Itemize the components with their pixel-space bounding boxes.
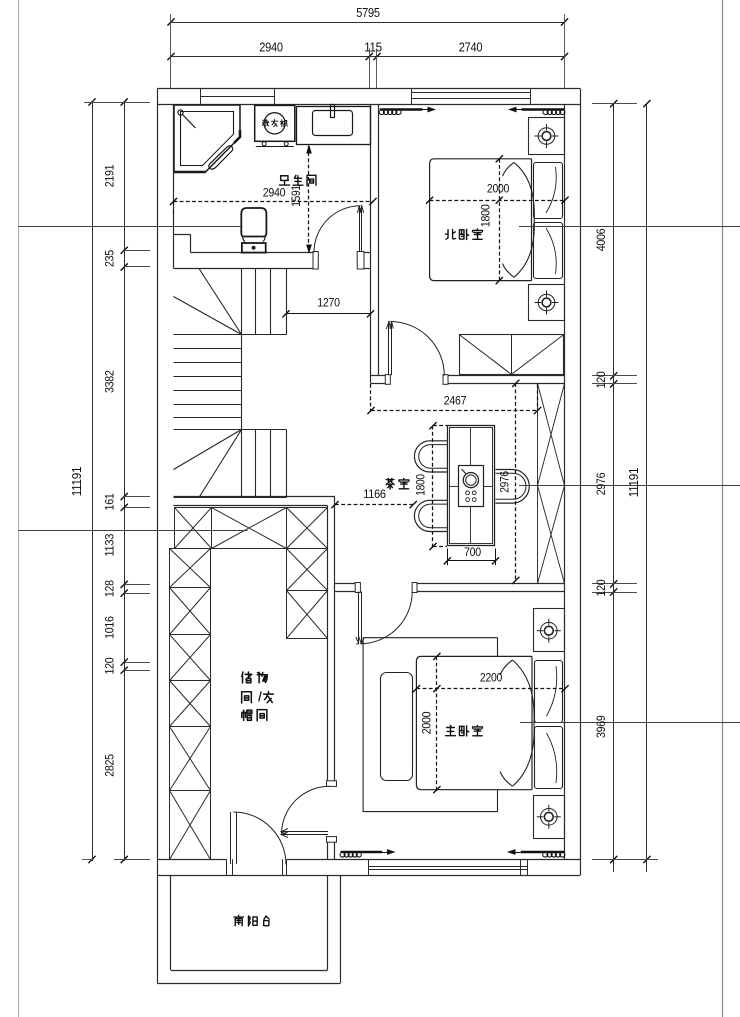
wall D storage north [174, 496, 336, 498]
svg-text:2740: 2740 [459, 41, 483, 55]
dim 700 table [447, 560, 495, 562]
dim 2200 bed [416, 688, 565, 690]
callout line left lower [19, 530, 248, 532]
dim 1800 tea room [432, 426, 434, 547]
wall F tea-room / master bedroom [335, 583, 355, 585]
svg-text:2000: 2000 [487, 182, 510, 196]
dim 2000 master bed [436, 656, 438, 789]
frame line left [18, 0, 20, 1017]
washing machine [255, 105, 295, 141]
svg-text:2940: 2940 [259, 41, 283, 55]
rug master bedroom [363, 638, 498, 812]
svg-text:235: 235 [103, 249, 117, 266]
svg-text:120: 120 [594, 579, 608, 596]
label 储物间/衣帽间 storage/cloak room [242, 672, 252, 683]
window W2 north bedroom [412, 92, 532, 94]
svg-text:1016: 1016 [103, 616, 117, 639]
label 卫生间 bathroom [279, 176, 289, 185]
sink vanity [297, 107, 371, 145]
svg-text:11191: 11191 [70, 466, 84, 496]
callout line right middle [519, 485, 740, 487]
door north bedroom [385, 375, 390, 385]
dim 2940 bathroom [174, 201, 374, 203]
bench master bedroom [381, 673, 413, 781]
shower door [209, 146, 233, 169]
dim chain right [613, 104, 615, 872]
blanket folds master bed [513, 660, 535, 786]
svg-text:2000: 2000 [420, 711, 434, 734]
bed north (1800) [430, 159, 532, 281]
window W3 sill cap detail [520, 859, 522, 875]
dim 1800 bed [499, 159, 501, 281]
svg-text:128: 128 [103, 580, 117, 597]
nightstand M2 [534, 796, 565, 839]
dim 1166 [335, 504, 413, 506]
svg-text:4006: 4006 [594, 228, 608, 251]
svg-text:120: 120 [594, 371, 608, 388]
wall exterior right [580, 89, 582, 876]
shower head [178, 110, 183, 115]
storage wardrobe right column [287, 549, 328, 591]
dim chain top [171, 22, 565, 24]
chair tea left top [414, 441, 447, 472]
svg-text:2191: 2191 [103, 164, 117, 187]
chair tea right [496, 470, 530, 504]
washing machine label 洗衣机 [262, 120, 269, 127]
window W1 bathroom north [201, 96, 276, 98]
svg-text:11191: 11191 [627, 467, 641, 497]
pillows master bed [535, 661, 563, 723]
svg-text:115: 115 [364, 41, 382, 55]
svg-text:700: 700 [464, 545, 481, 559]
wall exterior left [157, 89, 159, 876]
shower enclosure [174, 105, 240, 172]
pillows north bed [534, 163, 563, 219]
nightstand N1 [529, 118, 565, 155]
tall cabinet tea room [538, 384, 565, 486]
svg-text:3382: 3382 [103, 370, 117, 393]
svg-text:1166: 1166 [363, 487, 386, 501]
svg-text:1270: 1270 [317, 296, 340, 310]
svg-text:3969: 3969 [594, 715, 608, 738]
svg-text:2467: 2467 [444, 394, 467, 408]
svg-text:1800: 1800 [416, 474, 428, 496]
svg-text:5795: 5795 [356, 6, 380, 20]
door master bedroom [355, 583, 360, 593]
svg-text:1133: 1133 [103, 533, 117, 556]
staircase [174, 269, 287, 498]
dim 1270 hall [286, 313, 371, 315]
svg-text:2940: 2940 [263, 186, 286, 200]
wardrobe north bedroom [460, 335, 564, 375]
curtain north bedroom left [380, 108, 423, 110]
curtain north bedroom right [522, 108, 565, 110]
storage wardrobe top band [175, 508, 212, 549]
wall E storage right / master west [327, 506, 329, 787]
svg-text:2200: 2200 [480, 671, 503, 685]
label 北卧室 north bedroom [446, 229, 456, 239]
nightstand M1 [534, 609, 565, 652]
frame line right [722, 0, 724, 1017]
dim 2467 tea room [370, 384, 372, 411]
tea table [448, 426, 495, 546]
window W3 master bedroom south [369, 866, 528, 868]
wall A vertical bathroom/north-bedroom [370, 104, 372, 268]
label 茶室 tea room [386, 478, 394, 489]
callout line right lower [520, 722, 740, 724]
wall B north bedroom south [371, 375, 386, 377]
svg-text:1591: 1591 [291, 185, 303, 207]
storage wardrobe left column [170, 549, 211, 588]
svg-text:161: 161 [103, 493, 117, 510]
tea tray [459, 466, 484, 507]
nightstand N2 [529, 285, 565, 321]
wall C bathroom south [174, 234, 191, 236]
dim 2976 vertical dashed [515, 383, 517, 580]
svg-text:1800: 1800 [479, 204, 493, 227]
svg-text:2976: 2976 [594, 472, 608, 495]
door balcony [226, 859, 228, 875]
wall exterior top [158, 88, 581, 90]
label 南阳台 south balcony [234, 915, 243, 925]
wall exterior bottom [158, 875, 581, 877]
door storage-master [327, 781, 337, 787]
svg-text:2825: 2825 [103, 754, 117, 777]
bed master (2000x2200) [416, 656, 532, 789]
svg-text:2976: 2976 [500, 471, 512, 493]
balcony walls [157, 875, 159, 983]
callout line left upper [19, 226, 242, 228]
door bathroom [313, 252, 318, 270]
chair tea left bottom [414, 500, 447, 531]
blanket folds north bed [514, 162, 534, 277]
curtain master right [521, 851, 565, 853]
dim chain left [92, 102, 94, 861]
callout line right upper [519, 226, 740, 228]
svg-text:120: 120 [103, 657, 117, 674]
toilet [241, 208, 266, 237]
label 主卧室 master bedroom [446, 725, 456, 735]
dim 2000 bed [430, 200, 566, 202]
dim 1591 bathroom [308, 146, 310, 252]
curtain master left [341, 851, 383, 853]
